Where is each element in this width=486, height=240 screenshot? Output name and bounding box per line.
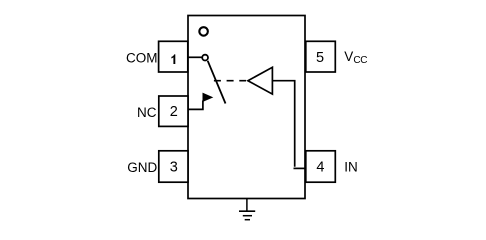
ground stem wire — [246, 199, 248, 212]
svg-text:COM: COM — [126, 50, 158, 65]
pin 1 orientation dot — [199, 27, 208, 36]
NC contact flag — [203, 93, 212, 101]
IC package body — [188, 16, 305, 199]
inverter driver triangle — [248, 67, 273, 94]
svg-text:4: 4 — [316, 160, 324, 176]
dashed actuation line — [214, 80, 246, 82]
ground symbol — [239, 211, 255, 220]
svg-text:NC: NC — [137, 105, 157, 120]
pin 2 box — [159, 96, 188, 126]
wire into pin 4 — [294, 167, 306, 169]
pin 3 box — [159, 151, 188, 182]
svg-text:2: 2 — [170, 104, 178, 120]
wire triangle output down right side — [272, 81, 294, 167]
svg-text:GND: GND — [127, 160, 157, 175]
svg-text:5: 5 — [316, 50, 324, 66]
pin 5 box — [306, 41, 336, 72]
svg-text:3: 3 — [170, 160, 178, 176]
switch lever — [208, 61, 226, 104]
pin 4 box — [306, 151, 336, 182]
wire pin1 to switch pole — [188, 56, 202, 58]
pin 1 number — [171, 54, 175, 64]
switch pole contact circle — [202, 55, 208, 61]
wire pin2 to NC contact — [188, 101, 203, 110]
pin 1 box — [159, 41, 188, 72]
svg-text:VCC: VCC — [344, 49, 367, 66]
svg-text:IN: IN — [344, 159, 358, 174]
